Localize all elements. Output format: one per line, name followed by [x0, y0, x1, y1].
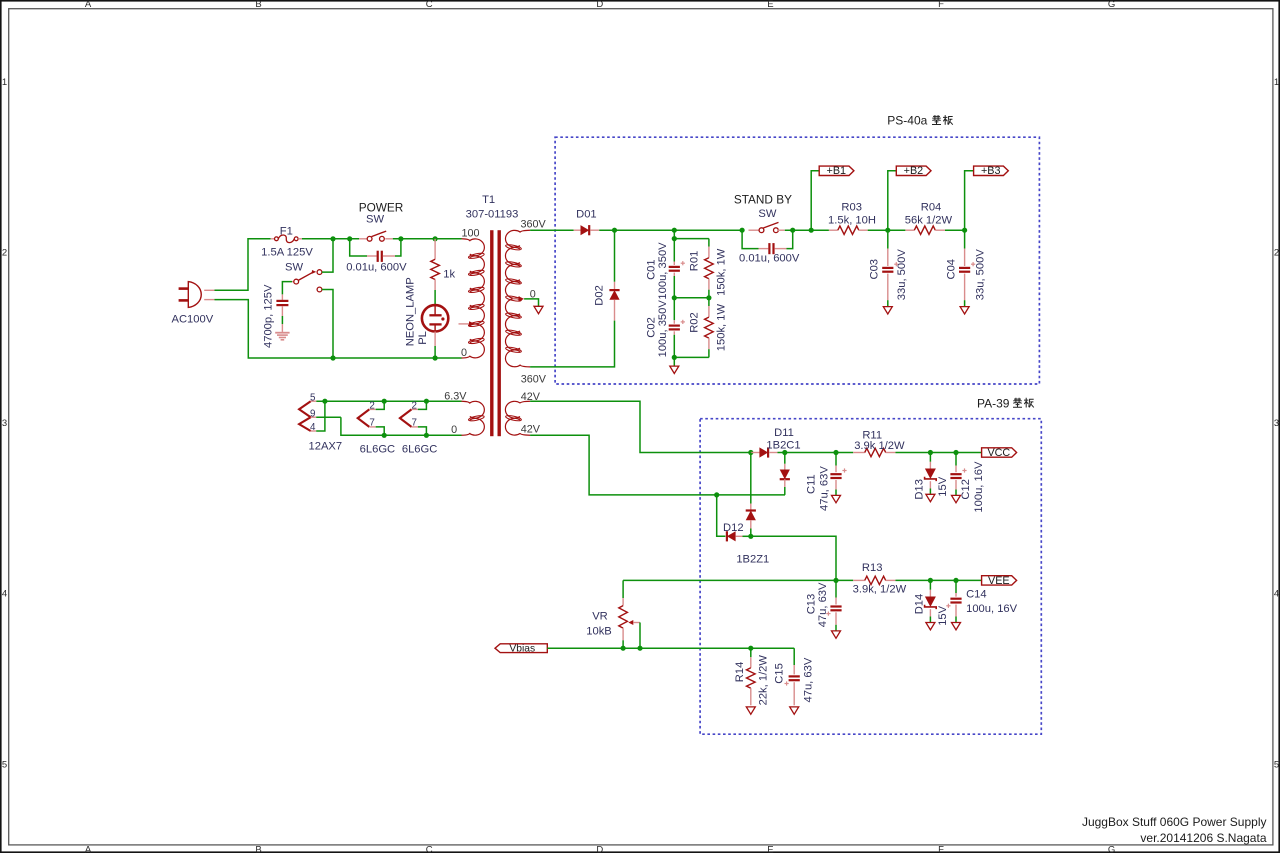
svg-text:F: F: [938, 844, 944, 853]
wire VR wiper to Vbias rail: [639, 623, 641, 649]
svg-text:+B3: +B3: [981, 165, 1001, 177]
global label Vbias: [495, 644, 547, 653]
svg-text:A: A: [85, 0, 92, 10]
junction: [706, 295, 711, 300]
svg-text:100: 100: [461, 227, 479, 239]
svg-text:33u, 500V: 33u, 500V: [975, 249, 987, 301]
svg-text:3.9k 1/2W: 3.9k 1/2W: [854, 440, 905, 452]
svg-text:F: F: [938, 0, 944, 10]
svg-text:JuggBox Stuff 060G Power Suppl: JuggBox Stuff 060G Power Supply: [1082, 815, 1267, 829]
AC plug P1 AC100V: [172, 282, 215, 326]
PS-40a board dashed outline: [555, 137, 1039, 384]
wire 0 heater rail: [341, 417, 462, 435]
diode (doubler, cathode down) at D11 output: [780, 453, 790, 495]
svg-text:47u, 63V: 47u, 63V: [817, 582, 829, 627]
tube 12AX7 heater pins 5/9/4: [299, 392, 342, 452]
svg-text:R14: R14: [734, 662, 746, 683]
global label +B2: [896, 166, 931, 175]
junction: [398, 236, 403, 241]
junction: [928, 450, 933, 455]
wire 42V bottom to PA-39: [530, 435, 785, 495]
svg-text:ver.20141206 S.Nagata: ver.20141206 S.Nagata: [1140, 831, 1266, 845]
svg-text:D12: D12: [723, 522, 744, 534]
capacitor C15 47u 63V: [773, 648, 814, 705]
ground C14: [952, 623, 961, 630]
svg-text:AC100V: AC100V: [172, 314, 214, 326]
svg-text:R03: R03: [841, 202, 862, 214]
capacitor C11 47u 63V: [805, 453, 846, 512]
svg-text:33u, 500V: 33u, 500V: [896, 249, 908, 301]
wire 6.3V rail: [316, 400, 461, 402]
wire +B3 riser: [965, 171, 974, 230]
wire R11 to VCC: [896, 452, 982, 454]
junction: [424, 399, 429, 404]
junction: [833, 578, 838, 583]
wire 42V top to PA-39: [530, 401, 751, 452]
transformer T1 heater winding 6.3V-0: [444, 391, 484, 436]
svg-text:C15: C15: [773, 663, 785, 684]
wire POWER SW to transformer: [393, 238, 462, 240]
svg-text:56k 1/2W: 56k 1/2W: [905, 214, 953, 226]
wire plug top to F1: [215, 239, 271, 290]
svg-text:2: 2: [369, 400, 374, 411]
junction: [424, 433, 429, 438]
junction: [330, 355, 335, 360]
PA-39 board dashed outline: [700, 419, 1041, 735]
svg-text:100u, 350V: 100u, 350V: [657, 300, 669, 358]
switch STAND BY SW: [734, 192, 792, 232]
wire 1k to neon lamp: [434, 290, 436, 304]
junction: [621, 646, 626, 651]
resistor R14 22k 1/2W: [734, 648, 769, 705]
svg-text:D14: D14: [914, 594, 926, 615]
junction: [790, 228, 795, 233]
transformer T1 winding 42V-42V: [505, 391, 540, 436]
wire SW common to 4700p: [282, 282, 292, 295]
svg-text:D13: D13: [914, 479, 926, 500]
junction: [382, 433, 387, 438]
capacitor C14 100u 16V: [946, 580, 1017, 622]
ground D13: [926, 494, 935, 501]
svg-text:7: 7: [412, 418, 417, 429]
svg-text:0.01u, 600V: 0.01u, 600V: [739, 253, 800, 265]
svg-text:1B2C1: 1B2C1: [766, 439, 800, 451]
junction: [612, 228, 617, 233]
diode D02: [594, 282, 620, 321]
svg-text:150k, 1W: 150k, 1W: [715, 248, 727, 296]
junction: [330, 236, 335, 241]
svg-text:6L6GC: 6L6GC: [402, 443, 437, 455]
svg-text:T1: T1: [482, 194, 495, 206]
transformer T1 secondary winding 360V-0-360V: [505, 218, 546, 385]
wire plug bottom to bottom rail: [215, 300, 462, 358]
capacitor C12 100u 16V: [950, 453, 985, 513]
junction: [809, 228, 814, 233]
capacitor C13 47u 63V: [805, 580, 841, 630]
ground C04: [960, 307, 969, 314]
wire +B2 riser: [888, 171, 897, 230]
junction: [748, 646, 753, 651]
capacitor C04 33u 500V: [945, 230, 986, 306]
wire D02 to 360V bottom: [530, 321, 614, 367]
wire D11 to R11: [778, 452, 854, 454]
svg-text:+B2: +B2: [904, 165, 924, 177]
svg-text:0: 0: [451, 424, 457, 436]
svg-text:2: 2: [412, 400, 417, 411]
svg-text:C: C: [426, 0, 433, 10]
svg-text:2: 2: [1274, 248, 1279, 259]
svg-text:R13: R13: [862, 562, 883, 574]
wire R04 to +B3: [945, 229, 965, 231]
svg-text:100u, 16V: 100u, 16V: [966, 603, 1018, 615]
svg-text:D: D: [596, 844, 603, 853]
svg-text:0.01u, 600V: 0.01u, 600V: [346, 262, 407, 274]
svg-text:R01: R01: [688, 251, 700, 272]
wire 12AX7 pin9: [316, 416, 341, 418]
wire neon to bottom rail: [434, 346, 436, 358]
capacitor C02 100u 350V: [646, 298, 685, 358]
resistor 1k: [431, 239, 456, 290]
svg-text:9: 9: [310, 408, 315, 419]
ground (earth) for 4700p: [275, 333, 289, 340]
junction: [782, 450, 787, 455]
svg-text:E: E: [767, 844, 773, 853]
ground C03: [883, 307, 892, 314]
svg-text:R04: R04: [921, 202, 942, 214]
junction: [953, 578, 958, 583]
resistor R04 56k 1/2W: [905, 202, 953, 235]
svg-text:5: 5: [1274, 759, 1279, 770]
svg-text:D: D: [596, 0, 603, 10]
svg-text:12AX7: 12AX7: [309, 441, 343, 453]
svg-text:D02: D02: [594, 285, 606, 306]
ground C02/R02: [670, 366, 679, 373]
capacitor 0.01u 600V across POWER SW: [346, 239, 407, 274]
svg-text:4700p, 125V: 4700p, 125V: [263, 284, 275, 348]
wire heater pin7 to 0 rail: [376, 427, 385, 435]
svg-text:4: 4: [310, 422, 316, 433]
svg-text:360V: 360V: [521, 218, 547, 230]
PA-39 board label: [977, 396, 1034, 410]
transformer T1 primary tap: [459, 321, 475, 326]
ground C13: [832, 631, 841, 638]
ground C11: [832, 495, 841, 502]
capacitor C03 33u 500V: [869, 230, 908, 306]
ground C15: [790, 707, 799, 714]
junction: [714, 492, 719, 497]
wire C01 branch: [674, 230, 709, 238]
svg-text:D01: D01: [576, 209, 597, 221]
svg-text:22k, 1/2W: 22k, 1/2W: [758, 655, 770, 706]
svg-text:PL: PL: [417, 331, 429, 345]
svg-text:E: E: [767, 0, 773, 10]
capacitor 0.01u 600V across STAND BY SW: [739, 230, 800, 264]
svg-text:STAND BY: STAND BY: [734, 192, 792, 206]
svg-text:307-01193: 307-01193: [466, 209, 519, 221]
wire SW throw1 up to AC rail: [322, 239, 333, 272]
svg-text:F1: F1: [280, 226, 293, 238]
wire D12 node to VEE rail: [751, 536, 836, 580]
svg-text:4: 4: [2, 589, 7, 600]
capacitor C01 100u 350V: [646, 239, 685, 300]
svg-text:G: G: [1108, 844, 1115, 853]
wire 360V top to D01: [530, 229, 574, 231]
svg-text:PS-40a: PS-40a: [887, 114, 927, 128]
svg-text:SW: SW: [285, 261, 303, 273]
transformer T1 secondary center tap 0: [513, 296, 525, 301]
svg-text:360V: 360V: [521, 374, 547, 386]
svg-text:C14: C14: [966, 589, 987, 601]
tube 6L6GC #2 heater pins 2/7: [400, 400, 437, 455]
tube 6L6GC #1 heater pins 2/7: [358, 400, 395, 455]
diode D12 1B2Z1: [717, 495, 770, 565]
potentiometer VR 10kB: [586, 580, 640, 648]
junction: [672, 295, 677, 300]
wire STANDBY to R03: [785, 229, 829, 231]
junction: [885, 228, 890, 233]
diode D01: [574, 209, 600, 236]
junction: [672, 236, 677, 241]
svg-text:C01: C01: [646, 259, 658, 280]
resistor R01 150k 1W: [688, 239, 727, 298]
svg-text:C: C: [426, 844, 433, 853]
svg-text:B: B: [255, 844, 261, 853]
zener diode D13 15V: [914, 453, 949, 500]
junction: [928, 578, 933, 583]
wire R03 to R04: [868, 229, 906, 231]
resistor R11 3.9k 1/2W: [853, 430, 905, 457]
svg-text:0: 0: [461, 347, 467, 359]
svg-text:B: B: [255, 0, 261, 10]
capacitor 4700p 125V: [263, 284, 289, 348]
resistor R13 3.9k 1/2W: [853, 562, 907, 595]
svg-text:VR: VR: [592, 611, 608, 623]
svg-text:7: 7: [369, 418, 374, 429]
fuse F1 1.5A 125V: [261, 226, 313, 259]
svg-text:1.5A 125V: 1.5A 125V: [261, 246, 313, 258]
wire SW throw2 down to bottom rail: [322, 290, 333, 359]
svg-text:C12: C12: [960, 479, 972, 500]
wire heater pin2 to 6.3V rail: [376, 401, 385, 409]
svg-text:15V: 15V: [937, 476, 949, 496]
svg-text:1: 1: [2, 77, 7, 88]
svg-text:3: 3: [1274, 418, 1279, 429]
svg-text:SW: SW: [366, 213, 384, 225]
junction: [833, 450, 838, 455]
wire heater pin7 to 0 rail: [418, 427, 427, 435]
svg-text:A: A: [85, 844, 92, 853]
global label +B3: [974, 166, 1009, 175]
wire VEE rail: [623, 579, 853, 581]
svg-text:4: 4: [1274, 589, 1279, 600]
junction: [748, 534, 753, 539]
transformer T1 307-01193 core: [490, 230, 493, 436]
svg-text:15V: 15V: [937, 605, 949, 625]
wire F1 to POWER SW: [302, 238, 359, 240]
junction: [672, 355, 677, 360]
wire 12AX7 pin4 to rail: [316, 401, 325, 431]
svg-text:C13: C13: [805, 594, 817, 615]
svg-text:VCC: VCC: [987, 447, 1010, 459]
svg-text:6L6GC: 6L6GC: [360, 443, 395, 455]
junction: [740, 228, 745, 233]
wire secondary 0 tap to ground: [524, 299, 538, 306]
svg-text:C11: C11: [805, 474, 817, 494]
svg-text:SW: SW: [758, 208, 776, 220]
zener diode D14 15V: [914, 580, 950, 625]
junction: [433, 236, 438, 241]
svg-text:47u, 63V: 47u, 63V: [802, 657, 814, 702]
junction: [748, 450, 753, 455]
svg-text:C04: C04: [945, 259, 957, 280]
wire bottom rail: [674, 356, 709, 358]
svg-text:100u, 16V: 100u, 16V: [973, 461, 985, 513]
svg-text:1B2Z1: 1B2Z1: [736, 553, 769, 565]
PS-40a board label: [887, 114, 953, 128]
svg-text:+B1: +B1: [827, 165, 847, 177]
svg-text:C02: C02: [646, 317, 658, 338]
svg-text:Vbias: Vbias: [509, 644, 535, 655]
svg-text:G: G: [1108, 0, 1115, 10]
svg-text:D11: D11: [774, 427, 794, 439]
svg-text:C03: C03: [869, 259, 881, 280]
junction: [962, 228, 967, 233]
global label +B1: [819, 166, 854, 175]
junction: [347, 236, 352, 241]
svg-text:PA-39: PA-39: [977, 396, 1010, 410]
svg-text:R02: R02: [688, 312, 700, 333]
transformer T1 primary winding 100-0: [461, 227, 485, 359]
ground D14: [926, 623, 935, 630]
transformer T1 labels: [466, 194, 519, 221]
wire mid rail: [674, 297, 709, 299]
wire D02 branch vertical: [614, 230, 616, 282]
junction: [953, 450, 958, 455]
resistor R02 150k 1W: [688, 298, 727, 358]
resistor R03 1.5k 10H: [828, 202, 876, 235]
global label VCC: [982, 448, 1017, 457]
junction: [672, 228, 677, 233]
wire D01 to rail: [599, 229, 742, 231]
ground C12: [952, 495, 961, 502]
diode D11 1B2C1: [751, 427, 801, 457]
svg-text:VEE: VEE: [988, 575, 1010, 587]
ground secondary 0 tap: [534, 306, 543, 313]
svg-text:2: 2: [2, 248, 7, 259]
wire heater pin2 to 6.3V rail: [418, 401, 427, 409]
wire Vbias rail: [547, 647, 794, 649]
wire R13 to VEE: [896, 579, 982, 581]
svg-text:100u, 350V: 100u, 350V: [657, 242, 669, 300]
svg-text:47u, 63V: 47u, 63V: [818, 466, 830, 511]
svg-text:3: 3: [2, 418, 7, 429]
junction: [382, 399, 387, 404]
svg-text:1k: 1k: [443, 269, 455, 281]
svg-text:150k, 1W: 150k, 1W: [715, 304, 727, 352]
wire +B1 riser: [811, 171, 819, 230]
svg-text:5: 5: [2, 759, 7, 770]
svg-text:1.5k, 10H: 1.5k, 10H: [828, 214, 876, 226]
wire to ground: [673, 357, 675, 366]
junction: [433, 355, 438, 360]
svg-text:5: 5: [310, 392, 316, 403]
junction: [637, 646, 642, 651]
junction: [322, 399, 327, 404]
neon lamp PL NEON_LAMP: [405, 277, 449, 346]
diode (doubler, cathode up) at D11 anode: [746, 453, 756, 537]
svg-text:3.9k, 1/2W: 3.9k, 1/2W: [853, 583, 907, 595]
svg-text:42V: 42V: [521, 424, 541, 436]
svg-text:1: 1: [1274, 77, 1279, 88]
switch POWER SW: [359, 201, 404, 242]
ground R14: [746, 707, 755, 714]
global label VEE: [982, 576, 1017, 585]
switch SW (line filter): [285, 261, 322, 292]
svg-text:NEON_LAMP: NEON_LAMP: [405, 277, 417, 346]
svg-text:10kB: 10kB: [586, 626, 612, 638]
